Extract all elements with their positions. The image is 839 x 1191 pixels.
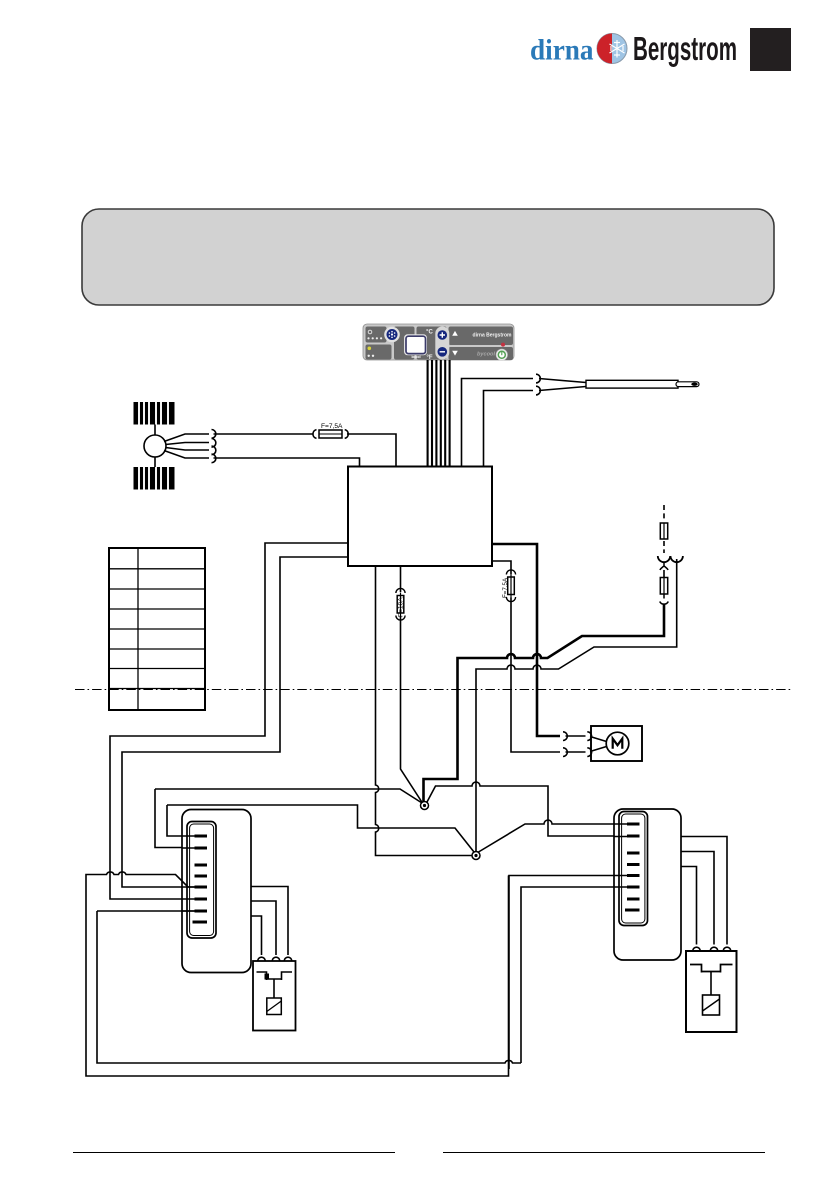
panel plus minus buttons (435, 327, 449, 360)
wire control unit bottom to node B (hops) (376, 566, 472, 856)
panel power button (496, 349, 507, 360)
wire fan lead 1 (164, 434, 209, 442)
svg-text:Bergstrom: Bergstrom (633, 30, 737, 67)
wire left hook into connector tick1 (167, 805, 193, 836)
wire node B to right connector tick1 (479, 820, 620, 852)
black square mark (750, 28, 791, 71)
wire overlay into right connector pins (614, 824, 627, 837)
relay K1 box (253, 961, 296, 1031)
wire control unit right out 2 via fuse F3 (492, 561, 511, 574)
svg-text:F=7,5A: F=7,5A (502, 577, 509, 598)
wire left connector tick7 (97, 910, 195, 912)
pump motor M2 (590, 726, 642, 761)
legend table (109, 548, 205, 710)
connector crescent fan 4 (212, 454, 216, 463)
wire sensor lead 1 (462, 379, 534, 467)
wire fan lead 3 (166, 448, 210, 451)
svg-text:bycool: bycool (477, 352, 495, 358)
wire fuse F3 to motor pump (511, 598, 560, 753)
connector crescent pump 1b (587, 732, 591, 741)
connector crescent sensor 2 (536, 386, 540, 395)
wire to fuse F5 (663, 570, 665, 578)
blower fan M1 motor circle (144, 435, 166, 457)
panel display (404, 334, 427, 355)
cab / rear bulkhead dash-dot line (75, 689, 791, 691)
wire left loop B towards node B (167, 805, 474, 852)
control panel U1 (363, 324, 514, 361)
control unit A1 (348, 467, 492, 567)
wire control unit bottom via fuse F2 (400, 566, 402, 592)
wire bottom loop inner (hop) (97, 911, 521, 1063)
svg-text:bcool: bcool (411, 355, 420, 359)
relay K1 coil (273, 979, 275, 998)
blower fan M1 top resistor block (134, 402, 175, 425)
connector cup right stem (671, 556, 683, 562)
wire sensor lead 2 (484, 391, 534, 467)
wire fan lead 2 (166, 443, 210, 445)
wire right connector out2 to relay (681, 852, 714, 945)
panel red led (501, 343, 505, 347)
fuse F4 (660, 523, 667, 539)
wire fuse F2 to node A (401, 616, 423, 803)
dashed supply wire right (663, 505, 665, 521)
right connector pins (625, 824, 640, 910)
svg-text:dirna: dirna (530, 35, 594, 67)
right connector housing X2 (614, 809, 681, 960)
wire bottom loop outer (hops) (86, 872, 509, 1076)
left connector insert (187, 822, 216, 939)
wire control unit left out 1 (110, 543, 348, 899)
relay K2 box (686, 951, 737, 1032)
wire right connector out3 to relay (681, 867, 697, 945)
panel arrows (452, 331, 458, 336)
node B junction (472, 852, 480, 860)
connector crescent pump 2a (563, 748, 567, 757)
fuse F5 (660, 578, 667, 595)
connector cup pair right chain (658, 556, 670, 562)
dashed wire below fuse F4 (663, 541, 665, 553)
fuse F2 10A (396, 588, 405, 620)
wire node A to right connector tick2 (hops) (427, 782, 619, 836)
svg-text:F=7,5A: F=7,5A (321, 423, 343, 430)
wire right connector tick6 from below (521, 887, 627, 1063)
svg-text:F=10A: F=10A (398, 597, 405, 617)
left connector housing X1 (182, 810, 251, 973)
wire left connector out2 to relay (251, 901, 276, 955)
connector crescent pump 1a (563, 732, 567, 741)
svg-text:dirna Bergstrom: dirna Bergstrom (473, 333, 512, 339)
relay K1 contact (257, 972, 293, 980)
wire fan feed to fuse F1 (214, 433, 314, 435)
ribbon cable panel to control unit (428, 360, 450, 467)
connector crescent fan 1 (212, 430, 216, 439)
wire right connector out1 to relay (681, 837, 727, 945)
wire left connector out1 to relay (251, 887, 288, 956)
grey rounded instruction box (82, 209, 774, 305)
connector crescent fan 3 (212, 446, 216, 455)
wire control unit left out 2 (122, 557, 348, 887)
wire fan to top block (154, 425, 156, 436)
panel left icons (368, 330, 372, 334)
wire fan lead 4 (164, 451, 209, 459)
wire left hook into connector tick2 (155, 789, 193, 848)
right connector insert (619, 812, 648, 926)
wire left loop A to node A (155, 789, 422, 803)
wire overlay into left connector pins (182, 836, 195, 911)
footer line left (73, 1152, 395, 1154)
wire fan to bottom block (154, 457, 156, 467)
wire control unit right out 1 (thick) (492, 544, 560, 736)
connector crescent sensor 1 (536, 374, 540, 383)
relay K2 coil (710, 972, 712, 996)
logo snowflake circle (597, 34, 627, 64)
fuse F3 7,5A (502, 570, 516, 602)
wire crescent to pump box 2 (566, 751, 586, 753)
svg-text:°C: °C (426, 330, 433, 336)
thin wire chain right to node B (476, 559, 677, 851)
relay K2 contact (690, 965, 733, 973)
wire fuse F1 to control unit top (347, 434, 396, 467)
relay K2 domes (693, 947, 731, 951)
footer line right (443, 1152, 765, 1154)
blower fan M1 bottom resistor block (134, 467, 175, 490)
relay K1 domes (258, 957, 292, 961)
node A junction (421, 802, 429, 810)
wire left connector out3 to relay (251, 916, 262, 955)
connector crescent fan 2 (212, 439, 216, 448)
panel snowflake button (384, 327, 400, 343)
thick wire chain left to trunk (424, 604, 665, 803)
wire crescent to pump box 1 (566, 735, 586, 737)
left connector pins (193, 836, 208, 922)
fuse F1 7,5A (313, 423, 348, 438)
wire right connector tick5 from below (509, 876, 627, 1070)
wire fan ground to control unit (214, 458, 360, 467)
logo Bergstrom text (633, 30, 737, 67)
connector cup below fuse F5 (660, 594, 669, 604)
temperature probe B1 (539, 379, 699, 391)
connector crescent pump 2b (587, 748, 591, 757)
